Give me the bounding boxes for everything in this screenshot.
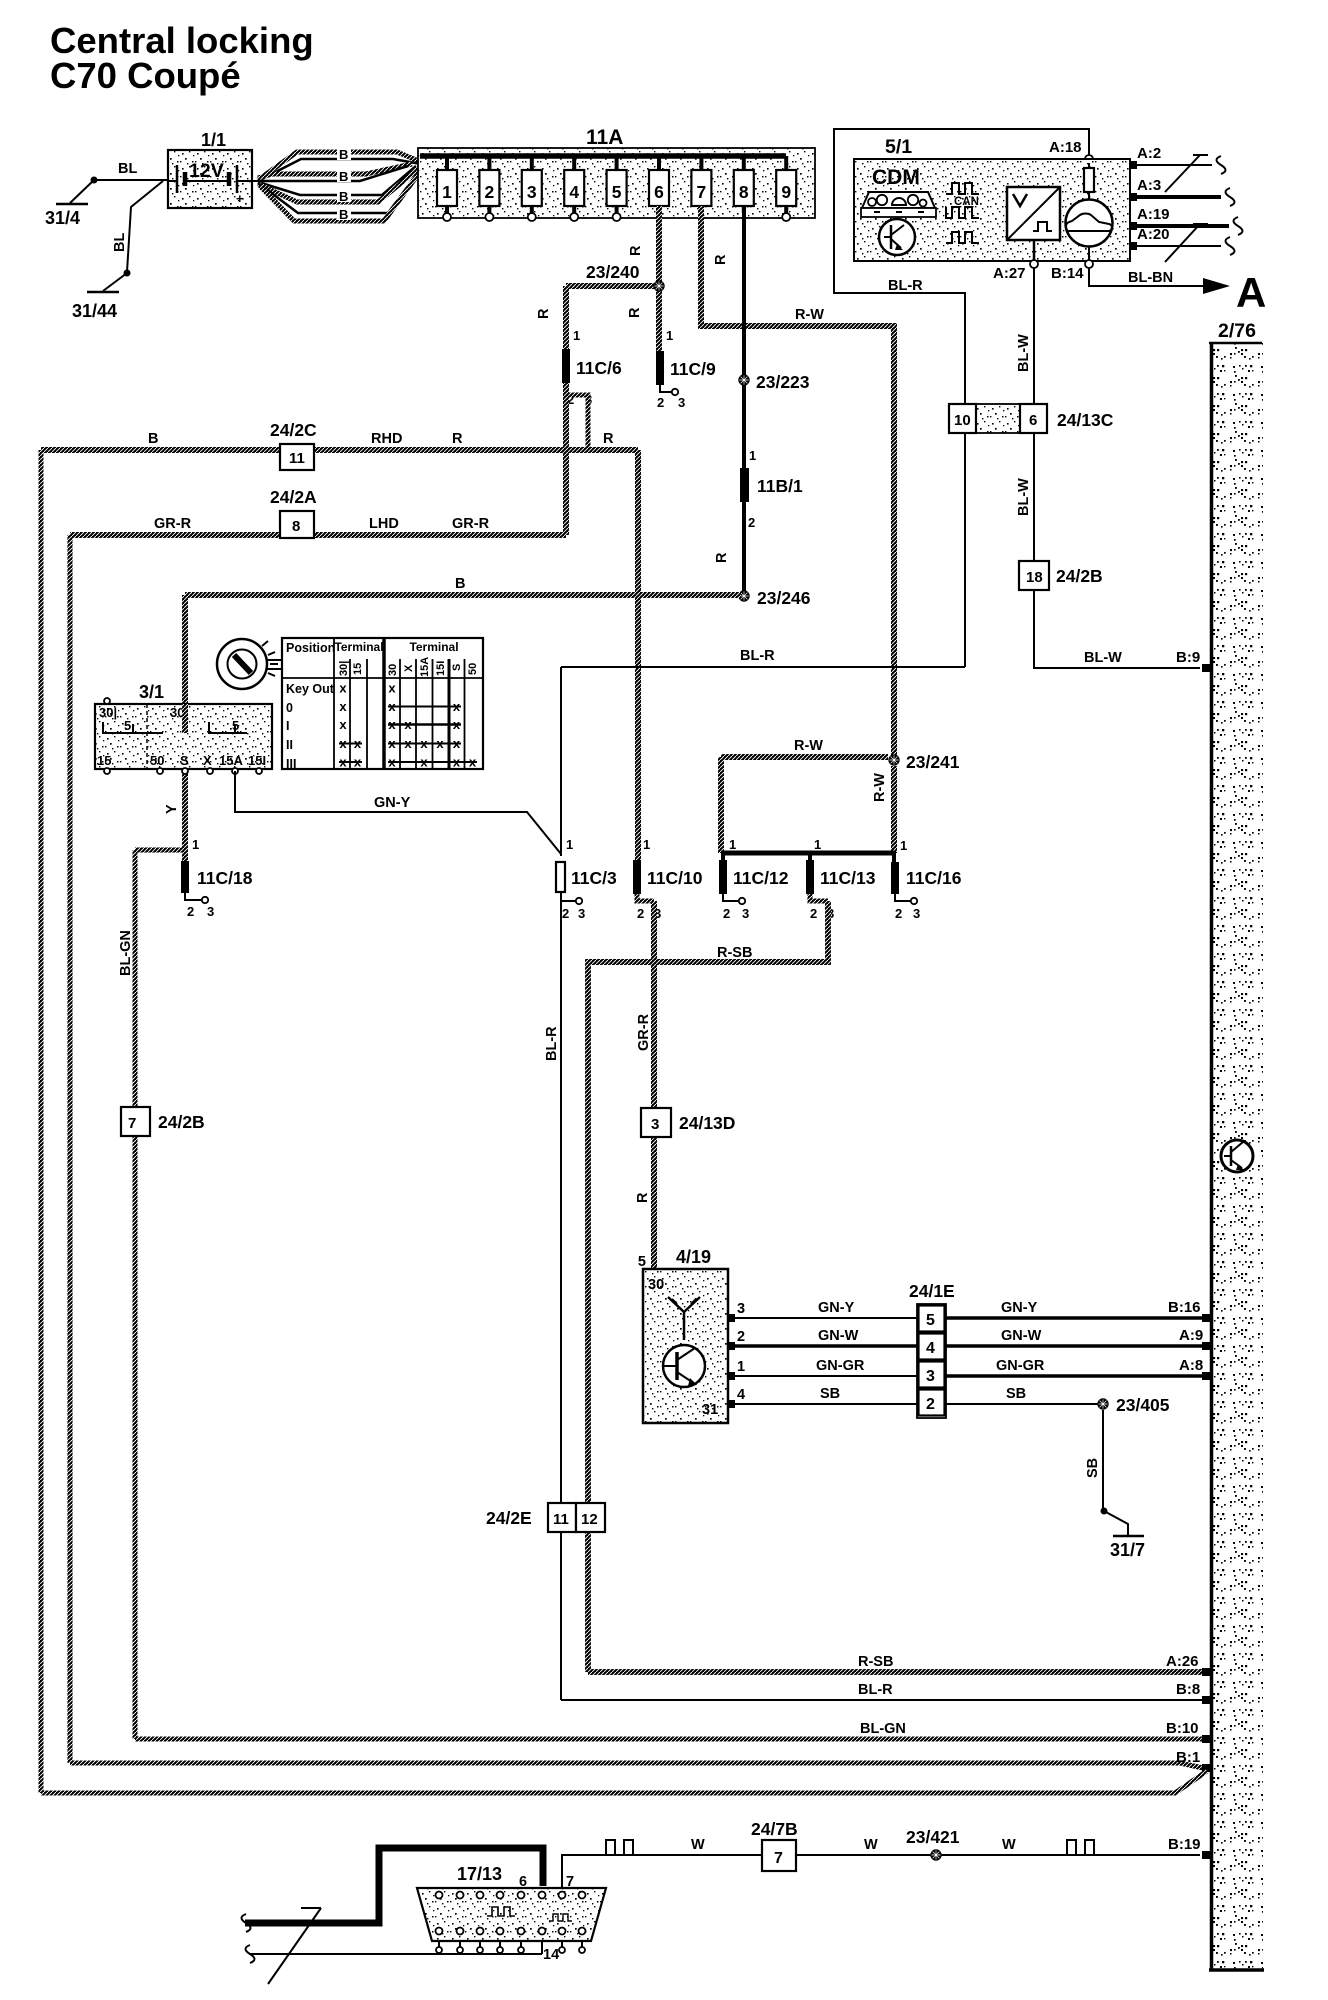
svg-text:B:1: B:1 (1176, 1749, 1200, 1766)
svg-text:50: 50 (467, 663, 479, 675)
svg-text:11C/6: 11C/6 (576, 358, 622, 378)
svg-text:SB: SB (1006, 1386, 1026, 1402)
svg-text:B:19: B:19 (1168, 1836, 1201, 1853)
svg-text:14: 14 (543, 1947, 559, 1963)
svg-text:7: 7 (128, 1115, 136, 1132)
svg-text:A:9: A:9 (1179, 1327, 1203, 1344)
svg-text:2: 2 (748, 515, 755, 530)
svg-text:C70 Coupé: C70 Coupé (50, 55, 241, 96)
svg-text:W: W (691, 1837, 705, 1853)
svg-text:3: 3 (678, 395, 685, 410)
svg-text:R: R (452, 431, 463, 447)
svg-text:X: X (203, 753, 212, 768)
svg-text:30: 30 (387, 664, 399, 676)
svg-text:R-W: R-W (795, 307, 824, 323)
svg-text:6: 6 (519, 1874, 527, 1890)
svg-text:11B/1: 11B/1 (757, 476, 803, 496)
svg-text:W: W (1002, 1837, 1016, 1853)
svg-text:31/4: 31/4 (45, 208, 80, 228)
svg-text:BL-W: BL-W (1084, 650, 1122, 666)
svg-text:R: R (603, 431, 614, 447)
svg-text:1: 1 (729, 837, 736, 852)
svg-text:12: 12 (581, 1511, 598, 1528)
svg-text:3: 3 (578, 906, 585, 921)
svg-text:1: 1 (737, 1359, 745, 1375)
svg-text:23/246: 23/246 (757, 588, 811, 608)
svg-text:A:27: A:27 (993, 265, 1026, 282)
svg-text:11C/16: 11C/16 (906, 868, 962, 888)
svg-text:x: x (339, 681, 347, 696)
svg-text:2: 2 (485, 182, 495, 202)
svg-text:GN-W: GN-W (1001, 1328, 1042, 1344)
svg-text:1: 1 (666, 328, 673, 343)
svg-text:23/223: 23/223 (756, 372, 810, 392)
svg-text:31/7: 31/7 (1110, 1540, 1145, 1560)
svg-text:31/44: 31/44 (72, 301, 117, 321)
svg-text:1: 1 (749, 448, 756, 463)
svg-text:5: 5 (638, 1254, 646, 1270)
svg-text:B: B (339, 169, 348, 184)
svg-text:A:19: A:19 (1137, 206, 1170, 223)
svg-text:5: 5 (612, 182, 622, 202)
svg-text:3: 3 (207, 904, 214, 919)
svg-text:A:8: A:8 (1179, 1357, 1203, 1374)
svg-text:x: x (388, 681, 396, 696)
svg-text:A: A (1236, 269, 1266, 316)
svg-text:BL: BL (112, 233, 128, 252)
svg-text:R: R (635, 1192, 651, 1203)
svg-text:24/2B: 24/2B (1056, 566, 1103, 586)
svg-text:11C/3: 11C/3 (571, 868, 617, 888)
svg-text:B: B (455, 576, 465, 592)
svg-text:BL-R: BL-R (740, 648, 775, 664)
svg-text:30|: 30| (338, 661, 350, 676)
svg-text:11C/12: 11C/12 (733, 868, 789, 888)
svg-text:1: 1 (814, 837, 821, 852)
svg-text:7: 7 (697, 182, 707, 202)
svg-text:2: 2 (723, 906, 730, 921)
svg-text:1: 1 (573, 328, 580, 343)
svg-text:11: 11 (289, 450, 305, 467)
svg-text:Y: Y (164, 804, 180, 814)
svg-text:2: 2 (637, 906, 644, 921)
svg-text:2: 2 (926, 1396, 935, 1413)
svg-text:8: 8 (292, 518, 300, 535)
svg-text:S: S (451, 664, 463, 671)
svg-text:2/76: 2/76 (1218, 320, 1256, 342)
svg-text:SB: SB (820, 1386, 840, 1402)
svg-text:BL-GN: BL-GN (860, 1721, 906, 1737)
svg-text:24/1E: 24/1E (909, 1281, 955, 1301)
svg-text:3: 3 (742, 906, 749, 921)
svg-text:24/2C: 24/2C (270, 420, 317, 440)
svg-text:15: 15 (352, 663, 364, 675)
svg-text:3: 3 (527, 182, 537, 202)
svg-text:GN-GR: GN-GR (816, 1358, 865, 1374)
svg-text:9: 9 (781, 182, 791, 202)
svg-text:Position: Position (286, 641, 335, 655)
svg-text:10: 10 (954, 412, 971, 429)
svg-text:II: II (286, 738, 293, 752)
svg-text:B: B (339, 147, 348, 162)
svg-text:24/13D: 24/13D (679, 1113, 735, 1133)
svg-text:B: B (339, 189, 348, 204)
svg-text:B:8: B:8 (1176, 1681, 1200, 1698)
svg-text:4: 4 (926, 1340, 935, 1357)
svg-text:LHD: LHD (369, 516, 399, 532)
svg-text:GN-Y: GN-Y (1001, 1300, 1038, 1316)
svg-text:4/19: 4/19 (676, 1247, 711, 1267)
svg-text:6: 6 (1029, 412, 1037, 429)
svg-text:B:10: B:10 (1166, 1720, 1199, 1737)
svg-text:24/2B: 24/2B (158, 1112, 205, 1132)
svg-text:23/241: 23/241 (906, 752, 960, 772)
svg-text:GN-Y: GN-Y (818, 1300, 855, 1316)
svg-text:23/421: 23/421 (906, 1827, 960, 1847)
svg-text:11A: 11A (586, 126, 623, 149)
svg-text:11C/10: 11C/10 (647, 868, 703, 888)
svg-text:BL: BL (118, 161, 137, 177)
svg-text:7: 7 (566, 1874, 574, 1890)
svg-text:A:26: A:26 (1166, 1653, 1199, 1670)
svg-text:CDM: CDM (872, 166, 920, 189)
svg-text:11: 11 (553, 1511, 569, 1528)
svg-text:R-W: R-W (794, 738, 823, 754)
svg-text:30: 30 (648, 1277, 664, 1293)
svg-text:BL-BN: BL-BN (1128, 270, 1173, 286)
svg-text:3: 3 (651, 1116, 659, 1133)
svg-text:R: R (714, 552, 730, 563)
svg-text:2: 2 (810, 906, 817, 921)
svg-text:15A: 15A (219, 753, 243, 768)
svg-text:2: 2 (737, 1329, 745, 1345)
svg-text:A:20: A:20 (1137, 226, 1170, 243)
svg-text:A:18: A:18 (1049, 139, 1082, 156)
svg-text:III: III (286, 757, 296, 771)
svg-text:x: x (339, 699, 347, 714)
svg-text:BL-W: BL-W (1016, 478, 1032, 516)
svg-text:2: 2 (657, 395, 664, 410)
svg-text:3: 3 (913, 906, 920, 921)
svg-text:B: B (148, 431, 158, 447)
svg-text:4: 4 (569, 182, 579, 202)
svg-text:GN-W: GN-W (818, 1328, 859, 1344)
svg-text:0: 0 (286, 701, 293, 715)
svg-text:B:9: B:9 (1176, 649, 1200, 666)
svg-text:1: 1 (566, 837, 573, 852)
svg-text:1: 1 (192, 837, 199, 852)
svg-text:GR-R: GR-R (452, 516, 490, 532)
svg-text:W: W (864, 1837, 878, 1853)
svg-text:18: 18 (1026, 569, 1043, 586)
svg-text:15I: 15I (435, 661, 447, 676)
svg-text:A:3: A:3 (1137, 177, 1161, 194)
svg-text:1: 1 (900, 838, 907, 853)
svg-text:R-SB: R-SB (858, 1654, 893, 1670)
svg-text:S: S (180, 753, 189, 768)
svg-text:R: R (628, 245, 644, 256)
svg-text:I: I (286, 719, 289, 733)
svg-text:A:2: A:2 (1137, 145, 1161, 162)
svg-text:15: 15 (97, 753, 111, 768)
svg-text:RHD: RHD (371, 431, 402, 447)
svg-text:15A: 15A (419, 657, 431, 677)
svg-text:Terminal: Terminal (409, 640, 458, 654)
svg-text:15I: 15I (248, 753, 266, 768)
svg-text:GR-R: GR-R (154, 516, 192, 532)
svg-text:2: 2 (562, 906, 569, 921)
svg-text:7: 7 (774, 1850, 783, 1867)
svg-text:2: 2 (895, 906, 902, 921)
svg-text:GR-R: GR-R (636, 1013, 652, 1051)
svg-text:5: 5 (124, 718, 131, 733)
svg-text:50: 50 (150, 753, 164, 768)
svg-text:R-W: R-W (872, 773, 888, 802)
svg-text:R: R (536, 308, 552, 319)
svg-text:24/7B: 24/7B (751, 1819, 798, 1839)
svg-text:23/405: 23/405 (1116, 1395, 1170, 1415)
svg-text:+: + (236, 191, 244, 206)
svg-text:Terminal: Terminal (334, 640, 383, 654)
svg-text:BL-GN: BL-GN (118, 930, 134, 976)
svg-text:BL-W: BL-W (1016, 334, 1032, 372)
svg-text:2: 2 (187, 904, 194, 919)
svg-text:11C/9: 11C/9 (670, 359, 716, 379)
svg-text:1: 1 (643, 837, 650, 852)
svg-text:B: B (339, 207, 348, 222)
svg-text:R-SB: R-SB (717, 945, 752, 961)
svg-text:31: 31 (702, 1402, 718, 1418)
svg-text:12V: 12V (189, 160, 224, 182)
svg-text:GN-GR: GN-GR (996, 1358, 1045, 1374)
svg-text:1/1: 1/1 (201, 130, 226, 150)
svg-text:BL-R: BL-R (858, 1682, 893, 1698)
svg-text:24/13C: 24/13C (1057, 410, 1114, 430)
svg-text:R: R (713, 254, 729, 265)
svg-text:BL-R: BL-R (888, 278, 923, 294)
svg-text:4: 4 (737, 1387, 745, 1403)
svg-text:24/2E: 24/2E (486, 1508, 532, 1528)
svg-text:BL-R: BL-R (544, 1026, 560, 1061)
svg-text:5: 5 (926, 1312, 935, 1329)
svg-text:5/1: 5/1 (885, 136, 912, 158)
svg-text:3: 3 (737, 1301, 745, 1317)
svg-text:11C/13: 11C/13 (820, 868, 876, 888)
svg-text:3: 3 (926, 1368, 935, 1385)
svg-text:3/1: 3/1 (139, 682, 164, 702)
svg-text:23/240: 23/240 (586, 262, 640, 282)
svg-text:30|: 30| (99, 705, 117, 720)
svg-text:B:14: B:14 (1051, 265, 1084, 282)
svg-text:6: 6 (654, 182, 664, 202)
svg-text:24/2A: 24/2A (270, 487, 317, 507)
svg-text:x: x (339, 717, 347, 732)
svg-text:11C/18: 11C/18 (197, 868, 253, 888)
svg-text:8: 8 (739, 182, 749, 202)
svg-text:17/13: 17/13 (457, 1864, 502, 1884)
svg-text:GN-Y: GN-Y (374, 795, 411, 811)
svg-text:B:16: B:16 (1168, 1299, 1201, 1316)
svg-text:1: 1 (442, 182, 452, 202)
svg-text:SB: SB (1085, 1458, 1101, 1478)
svg-text:R: R (627, 307, 643, 318)
svg-text:X: X (403, 664, 415, 672)
svg-text:Key Out: Key Out (286, 682, 335, 696)
